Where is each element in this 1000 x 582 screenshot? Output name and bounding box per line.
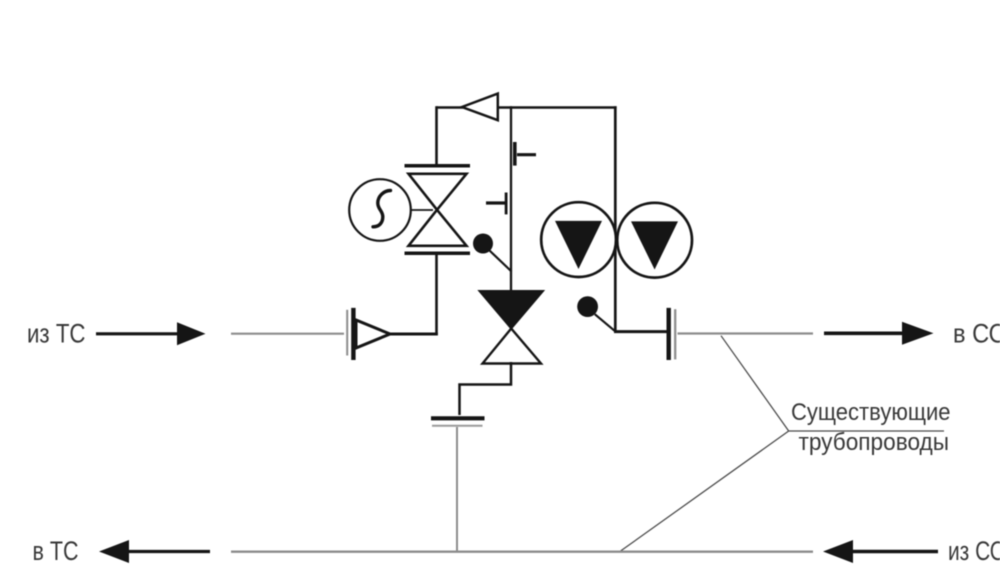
flange left gray bar bbox=[346, 310, 348, 356]
pipe to riser bbox=[389, 333, 438, 336]
drain top bar bbox=[431, 416, 485, 420]
actuator connector line bbox=[411, 209, 434, 211]
svg-text:в СО: в СО bbox=[953, 319, 1000, 349]
pump 2 circle bbox=[617, 203, 692, 278]
svg-text:из ТС: из ТС bbox=[27, 319, 86, 349]
svg-text:трубопроводы: трубопроводы bbox=[799, 429, 950, 456]
pump branch vertical bbox=[614, 106, 617, 331]
sensor dot right bbox=[577, 296, 598, 317]
pump 1 circle bbox=[541, 202, 616, 277]
existing pipe top-left (gray) bbox=[231, 333, 344, 335]
pipe to right flange bbox=[614, 330, 668, 333]
arrow flow-out CO bbox=[824, 322, 934, 345]
bypass top-right wire bbox=[499, 106, 617, 109]
riser below valve bbox=[435, 252, 438, 335]
pump 1 triangle bbox=[555, 221, 602, 269]
sensor dot left bbox=[473, 234, 493, 254]
leader line from bottom pipe bbox=[620, 431, 789, 552]
leader line from top pipe bbox=[721, 336, 789, 431]
drain lower gray bar bbox=[432, 425, 483, 427]
valve bowtie lower triangle bbox=[409, 210, 467, 246]
control valve lower open triangle bbox=[483, 329, 542, 364]
sensor stem left bbox=[490, 251, 512, 272]
bypass top-left wire bbox=[437, 106, 464, 109]
existing pipe bottom (gray) bbox=[231, 551, 813, 553]
tap upper stub bbox=[517, 153, 536, 156]
flange right black bar bbox=[667, 308, 671, 360]
control valve upper filled triangle bbox=[480, 291, 544, 329]
arrow flow-in TC bbox=[96, 322, 206, 345]
control valve stem line bbox=[510, 106, 512, 292]
valve top flange bar bbox=[405, 164, 471, 168]
arrow flow-out TC bbox=[99, 540, 210, 563]
svg-text:из СО: из СО bbox=[948, 536, 1000, 566]
reducer triangle bbox=[356, 320, 390, 348]
flange left black bar bbox=[351, 308, 355, 360]
arrow flow-in CO bbox=[823, 540, 938, 563]
tap lower flange bar bbox=[505, 193, 508, 215]
existing pipe top-right (gray) bbox=[678, 332, 814, 334]
riser above valve bbox=[435, 106, 438, 164]
leader shelf bbox=[789, 430, 944, 432]
svg-text:Существующие: Существующие bbox=[791, 399, 951, 426]
svg-text:в ТС: в ТС bbox=[33, 536, 79, 566]
flange right gray bar bbox=[674, 309, 676, 359]
drain gray line to sewer bbox=[456, 427, 458, 551]
drain pipe from valve bbox=[460, 362, 512, 415]
tap upper flange bar bbox=[513, 142, 517, 166]
tap lower stub bbox=[486, 201, 506, 204]
valve bowtie upper triangle bbox=[409, 174, 467, 210]
sensor stem right bbox=[595, 314, 616, 332]
solenoid circle S bbox=[349, 179, 411, 241]
pump 2 triangle bbox=[631, 221, 678, 269]
S squiggle bbox=[373, 191, 391, 227]
valve bottom flange bar bbox=[405, 252, 471, 256]
check valve triangle bbox=[462, 94, 498, 121]
